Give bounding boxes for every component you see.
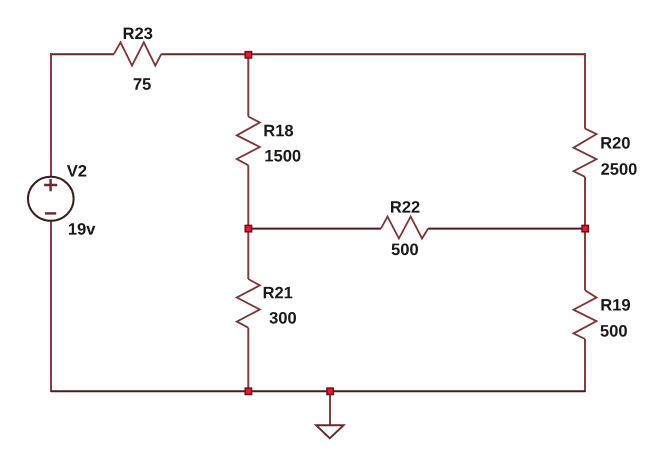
resistor R18 value label 1500 [265,150,300,162]
resistor R19 name label [601,299,630,311]
wire: middle vertical between R18 and middle junction [247,165,249,228]
wire: left vertical lower (V2 bottom to bottom-left corner) [50,221,52,392]
resistor R21 value label 300 [270,312,297,324]
wire: bottom horizontal (bottom-left corner to bottom-right corner) [51,390,585,392]
voltage source V2 name label [67,165,86,177]
resistor R18 name label [264,125,293,137]
ground stub wire [329,391,331,425]
resistor R23 name label [124,28,153,40]
resistor R22 name label [391,201,420,213]
voltage source V2 circle [28,177,74,221]
node junction: ground node [327,388,333,394]
resistor R23 body [114,42,161,65]
resistor R20 body [574,129,597,177]
resistor R21 body [237,279,260,328]
resistor R20 value label 2500 [601,163,636,175]
node junction: middle left [245,225,251,231]
resistor R21 name label [264,287,293,299]
resistor R22 body [381,217,428,239]
node junction: top middle [245,52,251,58]
node junction: bottom middle [245,388,251,394]
node junction: middle right [582,225,588,231]
wire: middle vertical between R21 and bottom junction [247,328,249,392]
wire: middle horizontal right segment (R22 to right middle junction) [428,228,585,230]
wire: right vertical between middle junction and R19 [584,229,586,291]
wire: right vertical upper (top-right corner to R20) [584,53,586,129]
wire: top-left horizontal segment (left corner to R23) [51,53,114,55]
voltage source V2 plus sign [44,179,57,191]
resistor R22 value label 500 [392,244,418,256]
resistor R19 value label 500 [601,325,627,337]
resistor R18 body [237,117,260,166]
wire: left vertical upper (corner to V2 top) [50,53,52,177]
voltage source V2 value label 19v [69,223,96,235]
voltage source V2 minus sign [45,212,56,214]
wire: top horizontal segment (R23 to top junction and to top-right corner) [161,53,585,55]
wire: middle vertical between middle junction and R21 [247,229,249,280]
wire: right vertical between R20 and right middle junction [584,177,586,229]
resistor R19 body [574,290,597,339]
ground symbol triangle [316,425,343,438]
resistor R20 name label [601,137,630,149]
wire: middle vertical upper (top junction to R18) [247,54,249,117]
wire: right vertical between R19 and bottom-right corner [584,339,586,392]
resistor R23 value label 75 [134,78,151,90]
wire: middle horizontal left segment (middle junction to R22) [248,228,381,230]
